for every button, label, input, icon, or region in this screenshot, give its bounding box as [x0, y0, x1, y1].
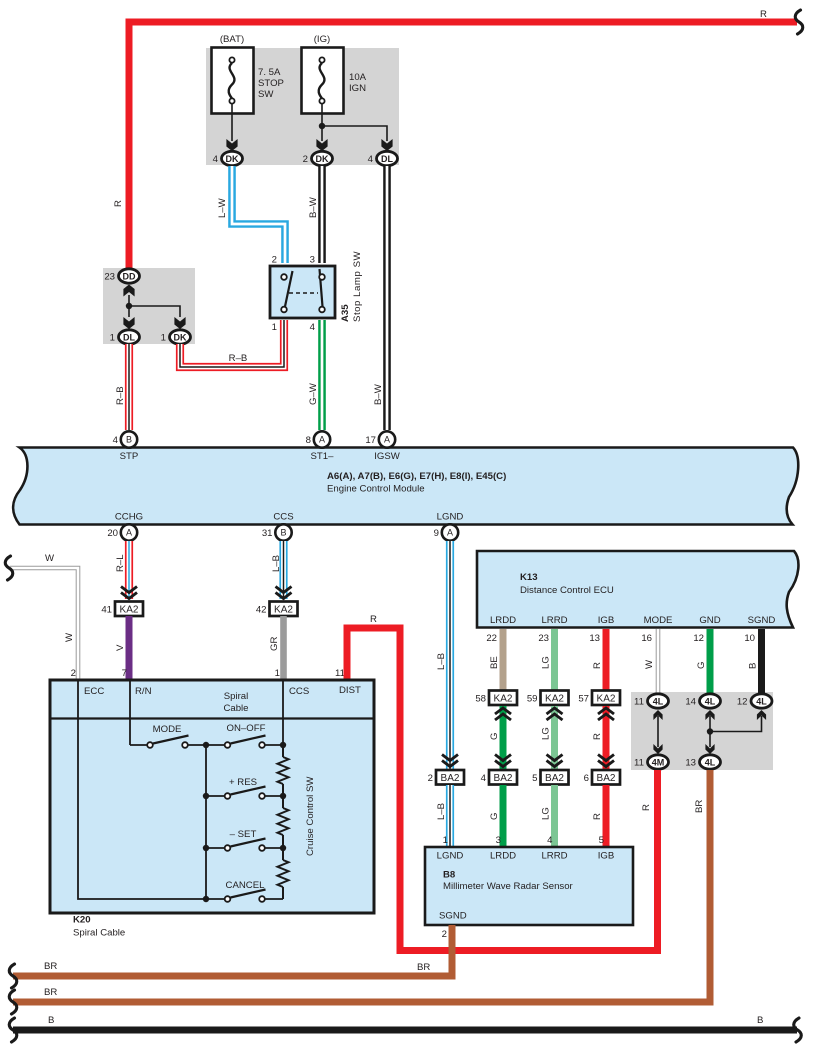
wire BR 13 4L to body ground	[13, 770, 710, 1002]
wire R-B 1 DL to ECM STP	[125, 344, 133, 430]
svg-text:(BAT): (BAT)	[220, 34, 244, 45]
connector 23 DD	[119, 269, 140, 283]
wire R K13 IGB to 57 KA2	[603, 629, 610, 691]
svg-text:Engine Control Module: Engine Control Module	[327, 484, 425, 495]
wire G K13 GND to 14 4L	[707, 629, 714, 694]
Millimeter Wave Radar Sensor B8 box	[425, 847, 633, 925]
svg-text:BA2: BA2	[494, 773, 513, 784]
junction dot mode row	[203, 742, 209, 748]
svg-text:STP: STP	[120, 451, 139, 462]
svg-text:L–B: L–B	[436, 653, 447, 670]
svg-text:R–L: R–L	[115, 554, 126, 572]
svg-text:R: R	[592, 733, 603, 740]
wire R-B stop lamp pin1 to 1 DK	[180, 320, 284, 367]
svg-text:22: 22	[486, 633, 497, 644]
svg-text:Spiral Cable: Spiral Cable	[73, 928, 125, 939]
svg-text:DK: DK	[174, 332, 187, 342]
wire DD junction branches	[128, 295, 130, 317]
wire V 41 KA2 to spiral cable R/N	[126, 616, 133, 680]
svg-text:R: R	[370, 614, 377, 625]
svg-text:LRRD: LRRD	[541, 615, 567, 626]
svg-text:KA2: KA2	[120, 605, 139, 616]
svg-text:K20: K20	[73, 915, 91, 926]
svg-text:LRDD: LRDD	[490, 851, 516, 862]
svg-text:20: 20	[107, 528, 118, 539]
junction connector gray box DD/DL/DK	[103, 268, 195, 344]
Engine Control Module band	[13, 448, 798, 525]
svg-text:Millimeter Wave Radar Sensor: Millimeter Wave Radar Sensor	[443, 881, 574, 892]
svg-text:K13: K13	[520, 572, 538, 583]
junction dot below IGN fuse	[319, 123, 325, 129]
wire LG 5 BA2 to radar LRRD	[551, 785, 558, 846]
svg-text:4M: 4M	[652, 757, 665, 767]
svg-text:LGND: LGND	[437, 851, 464, 862]
connector 42 KA2	[270, 602, 298, 617]
switch -SET	[206, 847, 224, 849]
stop lamp switch dashed coupling	[289, 292, 318, 294]
svg-text:SGND: SGND	[439, 911, 467, 922]
wire fuse STOP SW to connector 4 DK	[231, 104, 233, 142]
link 12 4L to junction	[757, 710, 766, 720]
junction dot -SET left	[203, 845, 209, 851]
svg-text:R–B: R–B	[229, 353, 248, 364]
svg-text:4L: 4L	[705, 696, 716, 706]
svg-text:4: 4	[368, 154, 374, 165]
svg-text:KA2: KA2	[494, 694, 513, 705]
svg-text:– SET: – SET	[230, 829, 257, 840]
svg-text:Stop Lamp SW: Stop Lamp SW	[352, 250, 363, 322]
switch MODE	[147, 742, 153, 748]
svg-text:10A: 10A	[349, 72, 367, 83]
svg-text:2: 2	[303, 154, 308, 165]
svg-text:BE: BE	[489, 656, 500, 669]
svg-text:BA2: BA2	[545, 773, 564, 784]
svg-text:58: 58	[475, 694, 486, 705]
svg-text:1: 1	[110, 333, 115, 344]
connector 4 DK	[222, 151, 243, 165]
svg-text:B: B	[748, 663, 759, 669]
connector 11 4L	[648, 694, 669, 708]
svg-text:B: B	[48, 1015, 54, 1026]
svg-text:KA2: KA2	[274, 605, 293, 616]
svg-text:G–W: G–W	[308, 382, 319, 405]
resistor R1 cruise	[278, 757, 289, 784]
svg-text:41: 41	[101, 605, 112, 616]
svg-text:Cable: Cable	[223, 703, 248, 714]
svg-text:B: B	[757, 1015, 763, 1026]
svg-text:KA2: KA2	[545, 694, 564, 705]
svg-text:L–B: L–B	[271, 555, 282, 572]
ECM pin 17 A IGSW	[379, 431, 395, 447]
svg-text:5: 5	[599, 835, 604, 846]
svg-text:DK: DK	[316, 154, 329, 164]
junction dot -SET right	[280, 845, 286, 851]
svg-text:B: B	[126, 435, 132, 445]
wire break squiggle W	[5, 556, 13, 580]
wire R-L ECM CCHG to 41 KA2	[125, 541, 133, 599]
svg-text:A: A	[384, 435, 390, 445]
wire R 6 BA2 to radar IGB	[603, 785, 610, 846]
wire L-B ECM LGND to 2 BA2	[446, 541, 454, 770]
Spiral Cable K20 box	[50, 680, 374, 913]
svg-text:CCHG: CCHG	[115, 512, 143, 523]
svg-text:CCS: CCS	[289, 686, 309, 697]
svg-text:+ RES: + RES	[229, 777, 257, 788]
svg-text:BR: BR	[694, 800, 705, 813]
wire L-W stop fuse to stop lamp switch pin 2	[232, 166, 285, 263]
svg-text:LGND: LGND	[437, 512, 464, 523]
svg-text:ON–OFF: ON–OFF	[227, 723, 266, 734]
wire R spiral DIST to 11 4M	[347, 628, 658, 951]
stop lamp switch contacts	[285, 271, 293, 307]
svg-text:LRRD: LRRD	[541, 851, 567, 862]
svg-text:Distance Control ECU: Distance Control ECU	[520, 585, 614, 596]
svg-text:11: 11	[634, 697, 644, 708]
wire L-B 2 BA2 to radar LGND	[446, 785, 454, 846]
connector 2 DK	[312, 151, 333, 165]
wire B-W ign to ECM IGSW	[383, 166, 391, 430]
svg-text:W: W	[64, 632, 75, 642]
spiral cable divider CCS	[282, 680, 284, 719]
svg-text:8: 8	[306, 435, 311, 446]
svg-text:17: 17	[365, 435, 376, 446]
svg-text:3: 3	[310, 255, 315, 266]
svg-text:12: 12	[737, 697, 748, 708]
svg-text:1: 1	[272, 322, 277, 333]
svg-text:4: 4	[113, 435, 119, 446]
svg-text:LRDD: LRDD	[490, 615, 516, 626]
wire R/N internal to MODE switch	[129, 719, 131, 746]
connector 1 DK	[170, 330, 191, 344]
right bus CCS internal	[282, 719, 284, 746]
connector 2 BA2	[436, 770, 464, 785]
svg-text:(IG): (IG)	[314, 34, 331, 45]
svg-text:12: 12	[693, 633, 704, 644]
svg-text:23: 23	[538, 633, 549, 644]
connector 57 KA2	[592, 691, 620, 706]
resistor R3 cruise	[278, 860, 289, 887]
svg-text:B8: B8	[443, 870, 456, 881]
connector 1 DL	[119, 330, 140, 344]
svg-text:DD: DD	[123, 271, 136, 281]
svg-text:CANCEL: CANCEL	[226, 880, 266, 891]
svg-text:BR: BR	[44, 961, 57, 972]
svg-text:W: W	[644, 659, 655, 669]
svg-text:SGND: SGND	[748, 615, 776, 626]
svg-text:IGB: IGB	[598, 851, 615, 862]
svg-text:DL: DL	[381, 154, 393, 164]
junction dot on-off row right	[280, 742, 286, 748]
link 11 4L to 11 4M	[653, 710, 662, 720]
wire G-W stop lamp pin4 to ECM ST1-	[318, 320, 326, 430]
svg-text:4: 4	[547, 835, 553, 846]
svg-text:R: R	[760, 9, 767, 20]
ECM pin 8 A ST1-	[314, 431, 330, 447]
switch CANCEL	[206, 898, 224, 900]
spiral cable header line	[50, 717, 374, 719]
svg-text:3: 3	[496, 835, 501, 846]
spiral cable divider ECC	[77, 680, 79, 719]
svg-text:A: A	[319, 435, 325, 445]
resistor R2 cruise	[278, 808, 289, 835]
svg-text:1: 1	[275, 668, 280, 679]
svg-text:G: G	[489, 733, 500, 740]
wire MODE to junction	[188, 744, 206, 746]
svg-text:5: 5	[532, 773, 537, 784]
svg-text:G: G	[489, 813, 500, 820]
spiral cable divider R/N	[129, 680, 131, 719]
svg-text:4: 4	[481, 773, 487, 784]
svg-text:GR: GR	[269, 637, 280, 651]
svg-text:BA2: BA2	[441, 773, 460, 784]
svg-text:11: 11	[634, 758, 644, 769]
svg-text:BR: BR	[417, 962, 430, 973]
connector gray box 4L/4M	[631, 692, 773, 770]
wire B K13 SGND to 12 4L	[758, 629, 765, 694]
wire W to spiral cable ECC	[10, 568, 78, 680]
Distance Control ECU K13 box	[477, 551, 798, 628]
svg-text:2: 2	[71, 668, 76, 679]
svg-text:B–W: B–W	[308, 196, 319, 218]
arrow up into DD	[123, 285, 134, 297]
svg-text:DL: DL	[123, 332, 135, 342]
svg-text:42: 42	[256, 605, 267, 616]
svg-text:1: 1	[443, 835, 448, 846]
fuse block gray box	[206, 48, 399, 165]
svg-text:BA2: BA2	[597, 773, 616, 784]
wire B ground bus	[13, 1027, 797, 1034]
svg-text:4L: 4L	[756, 696, 767, 706]
svg-text:9: 9	[434, 528, 439, 539]
svg-text:STOP: STOP	[258, 78, 284, 89]
wire break squiggle top right	[795, 10, 803, 34]
wire G 58 KA2 to 4 BA2	[500, 706, 507, 770]
svg-text:R: R	[592, 813, 603, 820]
connector 59 KA2	[541, 691, 569, 706]
svg-text:LG: LG	[541, 727, 552, 740]
junction dot GND/SGND	[707, 728, 713, 734]
svg-text:R: R	[641, 804, 652, 811]
svg-text:2: 2	[272, 255, 277, 266]
svg-text:1: 1	[161, 333, 166, 344]
junction dot DD branch	[126, 303, 132, 309]
link 14 4L to 13 4L	[705, 710, 714, 720]
wire BE K13 LRDD to 58 KA2	[500, 629, 507, 691]
svg-text:R–B: R–B	[115, 386, 126, 405]
wire LG K13 LRRD to 59 KA2	[551, 629, 558, 691]
svg-text:CCS: CCS	[273, 512, 293, 523]
svg-text:16: 16	[641, 633, 652, 644]
svg-text:BR: BR	[44, 987, 57, 998]
svg-text:B–W: B–W	[373, 383, 384, 405]
connector 11 4M	[648, 755, 669, 769]
svg-text:DK: DK	[226, 154, 239, 164]
svg-text:B: B	[280, 528, 286, 538]
svg-text:LG: LG	[541, 807, 552, 820]
wire R 57 KA2 to 6 BA2	[603, 706, 610, 770]
ECM pin 4 B STP	[121, 431, 137, 447]
wire G 4 BA2 to radar LRDD	[500, 785, 507, 846]
svg-text:A35: A35	[340, 304, 351, 322]
svg-text:W: W	[45, 553, 55, 564]
junction dot +RES left	[203, 793, 209, 799]
arrow down into 1 DK	[174, 317, 185, 329]
svg-text:7. 5A: 7. 5A	[258, 67, 281, 78]
wire BR radar SGND to body ground	[13, 925, 452, 976]
svg-text:L–W: L–W	[217, 197, 228, 218]
svg-text:59: 59	[527, 694, 538, 705]
svg-text:4L: 4L	[705, 757, 716, 767]
svg-text:ST1–: ST1–	[311, 451, 335, 462]
connector 13 4L	[700, 755, 721, 769]
svg-text:MODE: MODE	[644, 615, 673, 626]
svg-text:14: 14	[685, 697, 696, 708]
svg-text:23: 23	[104, 272, 115, 283]
svg-text:DIST: DIST	[339, 685, 361, 696]
svg-text:31: 31	[262, 528, 273, 539]
wire ECC internal	[78, 719, 206, 900]
svg-text:MODE: MODE	[153, 724, 182, 735]
arrow chevrons into 42 KA2	[276, 587, 292, 593]
svg-text:13: 13	[589, 633, 600, 644]
svg-text:LG: LG	[541, 656, 552, 669]
wire L-B ECM CCS to 42 KA2	[279, 541, 287, 599]
connector 5 BA2	[541, 770, 569, 785]
svg-text:IGSW: IGSW	[374, 451, 401, 462]
svg-text:IGN: IGN	[349, 83, 366, 94]
svg-text:KA2: KA2	[597, 694, 616, 705]
svg-text:ECC: ECC	[84, 686, 104, 697]
svg-text:4: 4	[213, 154, 219, 165]
svg-text:R: R	[592, 662, 603, 669]
wire B-W ign to stop lamp switch pin 3	[318, 166, 326, 263]
connector 6 BA2	[592, 770, 620, 785]
svg-text:A6(A), A7(B), E6(G), E7(H), E8: A6(A), A7(B), E6(G), E7(H), E8(I), E45(C…	[327, 471, 506, 482]
junction dot +RES right	[280, 793, 286, 799]
connector 41 KA2	[115, 602, 143, 617]
svg-text:2: 2	[428, 773, 433, 784]
connector 4 BA2	[489, 770, 517, 785]
arrow chevrons into 41 KA2	[121, 587, 137, 593]
connector 12 4L	[751, 694, 772, 708]
connector 4 DL	[377, 151, 398, 165]
svg-text:GND: GND	[699, 615, 720, 626]
svg-text:4: 4	[310, 322, 316, 333]
switch +RES	[206, 795, 224, 797]
svg-text:13: 13	[685, 758, 696, 769]
switch ON-OFF	[206, 744, 224, 746]
svg-text:57: 57	[578, 694, 589, 705]
wire GR 42 KA2 to spiral cable CCS	[280, 616, 287, 680]
wire fuse IGN to connectors 2 DK and 4 DL	[322, 104, 387, 142]
stop lamp switch A35 body	[270, 266, 335, 318]
svg-text:Cruise Control SW: Cruise Control SW	[305, 776, 316, 856]
svg-text:4L: 4L	[653, 696, 664, 706]
svg-text:2: 2	[442, 929, 447, 940]
svg-text:L–B: L–B	[436, 803, 447, 820]
left bus of cruise switch	[205, 745, 207, 899]
wire W K13 MODE to 11 4L	[656, 629, 661, 694]
svg-text:V: V	[115, 644, 126, 651]
connector 14 4L	[700, 694, 721, 708]
wire LG 59 KA2 to 5 BA2	[551, 706, 558, 770]
svg-text:G: G	[696, 662, 707, 669]
svg-text:Spiral: Spiral	[224, 691, 249, 702]
svg-text:R/N: R/N	[135, 686, 152, 697]
svg-text:6: 6	[584, 773, 589, 784]
svg-text:A: A	[447, 528, 453, 538]
junction dot CANCEL left	[203, 896, 209, 902]
svg-text:7: 7	[122, 668, 127, 679]
connector 58 KA2	[489, 691, 517, 706]
wire R main power feed	[129, 22, 797, 273]
svg-text:A: A	[126, 528, 132, 538]
svg-text:IGB: IGB	[598, 615, 615, 626]
arrow down into 1 DL	[123, 317, 134, 329]
svg-text:R: R	[113, 200, 124, 207]
svg-text:10: 10	[744, 633, 755, 644]
svg-text:SW: SW	[258, 89, 274, 100]
